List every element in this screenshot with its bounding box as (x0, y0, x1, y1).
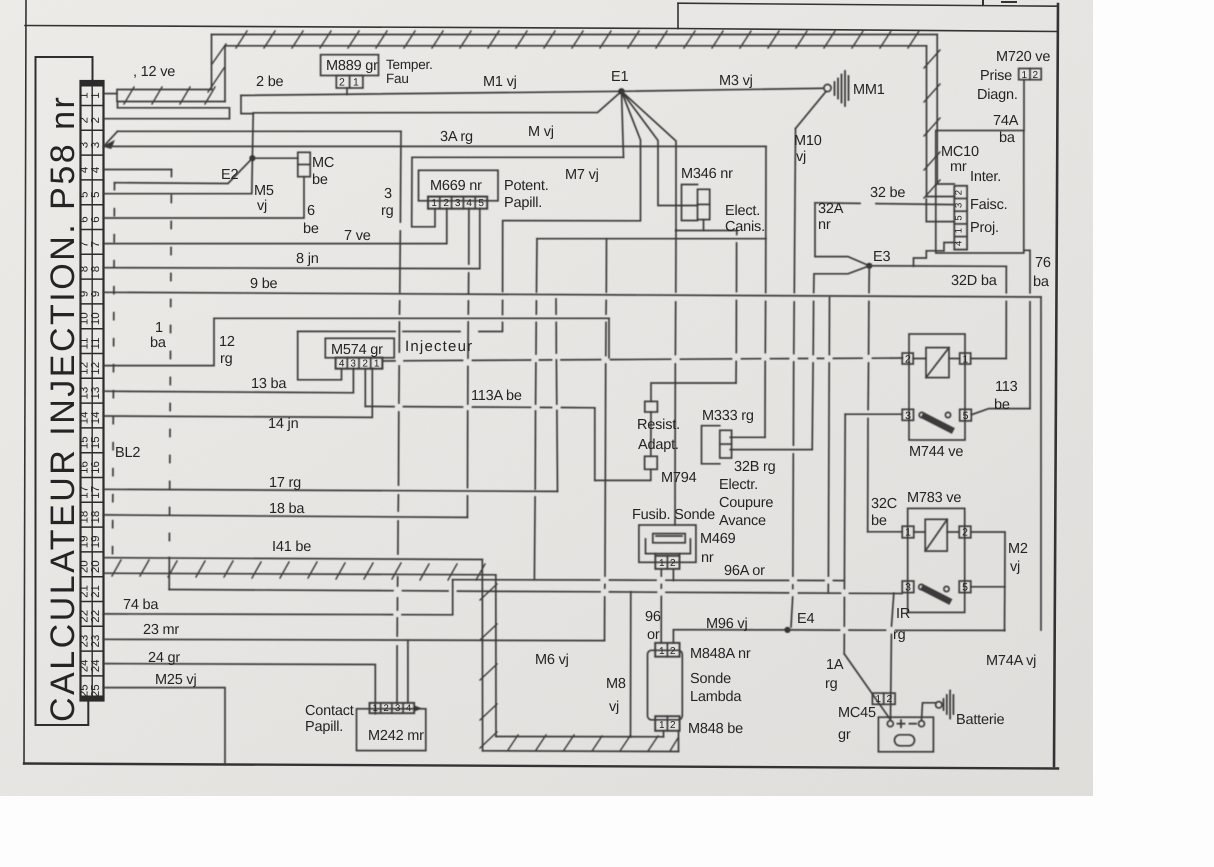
wire 12 rg drop to injector line (608, 318, 610, 358)
svg-text:rg: rg (893, 627, 906, 643)
svg-text:23: 23 (90, 635, 102, 648)
svg-text:6: 6 (79, 216, 91, 222)
shield dashed vertical x=114 (BL2) (113, 183, 115, 558)
svg-text:Papill.: Papill. (504, 195, 542, 211)
svg-text:17 rg: 17 rg (269, 475, 301, 491)
wire M3 vj to MM1 (622, 88, 824, 91)
wire 17 rg (104, 489, 558, 491)
svg-text:1: 1 (431, 198, 437, 209)
svg-text:M848A nr: M848A nr (690, 646, 751, 662)
svg-text:1: 1 (962, 354, 968, 366)
wire canister vertical x=737 (736, 231, 737, 384)
svg-text:113: 113 (995, 379, 1018, 395)
pin strip (81, 81, 104, 701)
svg-text:18: 18 (79, 511, 91, 524)
svg-text:Injecteur: Injecteur (405, 338, 473, 355)
svg-text:8: 8 (90, 266, 102, 272)
M vj bus y=238.7 (537, 238, 766, 240)
svg-text:5: 5 (90, 191, 102, 197)
wire M1 vj left tail staircase (241, 95, 253, 113)
wire M vj : E2 riser (251, 114, 254, 159)
svg-text:ba: ba (150, 335, 167, 351)
harness band 12 ve (pin1) horizontal channel (117, 90, 225, 102)
svg-text:20: 20 (79, 560, 91, 573)
wire 1A rg diagonal to MC45 (844, 654, 890, 720)
wire M7 vj loop to M669 pin1 (412, 157, 624, 227)
svg-text:4: 4 (406, 703, 411, 714)
wire 24 gr (104, 664, 376, 714)
M669 connector 1-5 (428, 197, 487, 209)
svg-text:M vj: M vj (528, 124, 554, 140)
wire 32 be to MC10 cell2 (815, 203, 954, 205)
svg-text:2: 2 (962, 527, 968, 539)
svg-text:3: 3 (79, 142, 91, 148)
svg-text:CALCULATEUR INJECTION. P58 nr: CALCULATEUR INJECTION. P58 nr (44, 95, 82, 722)
svg-text:4: 4 (466, 198, 472, 209)
svg-text:rg: rg (825, 676, 838, 692)
fuse link to connector (655, 554, 679, 556)
svg-text:IR: IR (896, 606, 910, 622)
wire 74 ba (104, 580, 453, 615)
svg-text:14 jn: 14 jn (268, 416, 299, 432)
calculateur title box (36, 57, 93, 725)
svg-text:MM1: MM1 (853, 82, 885, 98)
svg-text:or: or (647, 627, 660, 643)
battery plus terminal (887, 721, 893, 727)
svg-text:M8: M8 (606, 676, 626, 692)
wire 14 jn (104, 369, 373, 418)
svg-text:8 jn: 8 jn (296, 251, 319, 267)
component Inter Faisc Proj box (936, 131, 1024, 254)
shield dashed vertical x=171 (1 ba) (169, 170, 171, 558)
svg-text:2: 2 (339, 77, 345, 89)
wire 3A rg long horizontal (104, 145, 767, 147)
M346 connector (698, 189, 710, 219)
wire 32C be from E3 down to M783 pin1 (868, 266, 870, 532)
svg-text:rg: rg (220, 351, 233, 367)
label M242 cells (372, 703, 411, 714)
svg-text:Inter.: Inter. (970, 169, 1001, 185)
battery slot (895, 735, 915, 746)
wire 3 rg horizontal (pin3 upper) (118, 130, 402, 132)
wire M242 pin4 riser to M6 line (407, 641, 409, 703)
band 141 end upturn at M848 (664, 732, 679, 752)
svg-text:4: 4 (79, 166, 91, 173)
svg-text:2: 2 (670, 646, 676, 657)
wire 9 be long line (104, 292, 1042, 297)
svg-text:1: 1 (155, 320, 163, 336)
wire injecteur line M574 to relay pin2 (382, 358, 902, 361)
svg-text:Elect.: Elect. (725, 203, 760, 219)
svg-text:22: 22 (90, 610, 102, 623)
component M574 box (325, 338, 394, 358)
svg-text:22: 22 (79, 610, 91, 623)
wire M783 pin5 (971, 586, 1005, 588)
svg-text:MC10: MC10 (941, 144, 979, 160)
band 141 bottom leg (483, 737, 679, 752)
wire M10 vj vertical to E4 (791, 129, 796, 628)
E1 vertical to M7 (622, 91, 624, 157)
svg-text:Fusib. Sonde: Fusib. Sonde (632, 507, 715, 523)
svg-text:19: 19 (79, 536, 91, 549)
svg-text:M1 vj: M1 vj (483, 74, 517, 90)
svg-text:M10: M10 (794, 133, 822, 149)
M783 coil leads (914, 531, 959, 533)
svg-text:Avance: Avance (719, 513, 766, 529)
svg-text:14: 14 (79, 411, 91, 424)
hatch ticks 141 descent (480, 584, 497, 748)
svg-text:12: 12 (79, 362, 91, 375)
svg-text:M720 ve: M720 ve (996, 49, 1050, 65)
M242 arrow nub (414, 706, 421, 711)
frame left edge (24, 0, 26, 764)
E1 fan diagonal 2 to M346 feed (622, 91, 698, 205)
svg-text:rg: rg (381, 203, 394, 219)
svg-text:E2: E2 (221, 167, 238, 183)
svg-text:be: be (312, 172, 328, 188)
M783 switch circles (919, 584, 924, 589)
svg-text:7: 7 (79, 241, 91, 247)
harness band top channel (212, 35, 938, 46)
svg-text:3: 3 (90, 142, 102, 148)
svg-text:2: 2 (90, 117, 102, 123)
component Prise Diagn connector (1019, 69, 1041, 80)
E1 fan diagonal 1 + vertical to M346 upper (298, 91, 641, 331)
svg-text:2: 2 (362, 359, 368, 370)
svg-text:M7 vj: M7 vj (565, 167, 599, 183)
M574 pin4 wire to 17rg (298, 331, 342, 379)
wire 96 or vertical M469 cell1 to M848A (660, 569, 662, 643)
wire M96 vj from M848A cell2 to E4 (673, 630, 787, 643)
M744 pin5 square (960, 409, 972, 421)
svg-text:E3: E3 (873, 249, 890, 265)
component M669 box (419, 170, 499, 201)
frame right edge (1054, 4, 1058, 766)
M783 coil (925, 519, 947, 551)
svg-text:21: 21 (90, 585, 102, 598)
wire 113A be riser x=595 (594, 408, 596, 481)
title block top-right: top edge (678, 3, 1058, 6)
harness band entry into MC10 connector (927, 184, 955, 197)
wire 9be/76ba vertical x=1041 (1040, 297, 1042, 630)
svg-text:1: 1 (353, 77, 359, 89)
battery riser vertical x=845 (844, 414, 845, 654)
wire 7 ve (104, 209, 447, 244)
svg-text:16: 16 (79, 461, 91, 474)
svg-text:ba: ba (999, 130, 1016, 146)
svg-text:19: 19 (90, 536, 102, 549)
svg-text:3: 3 (905, 582, 911, 594)
M783 pin5 square (959, 581, 971, 593)
svg-text:13 ba: 13 ba (251, 376, 287, 392)
wire E2 to MC (252, 157, 297, 159)
svg-text:mr: mr (950, 159, 967, 175)
harness band riser channel x=211-225 (212, 35, 226, 102)
frame bottom line (24, 764, 1058, 769)
E1 fan diagonal 3 (622, 91, 677, 230)
svg-text:76: 76 (1035, 255, 1051, 271)
svg-text:10: 10 (90, 312, 102, 325)
svg-text:Proj.: Proj. (970, 220, 999, 236)
band 141 right descent (482, 560, 496, 751)
component relay M744 box (909, 334, 965, 440)
svg-text:4: 4 (954, 241, 965, 246)
svg-text:1: 1 (372, 703, 377, 714)
svg-text:Temper.: Temper. (386, 57, 433, 72)
battery plus sign (898, 720, 905, 727)
svg-text:2: 2 (670, 558, 676, 569)
svg-text:2: 2 (670, 720, 676, 731)
svg-text:13: 13 (90, 387, 102, 400)
E1 junction dot (618, 88, 624, 94)
svg-text:32 be: 32 be (870, 185, 905, 201)
svg-text:5: 5 (478, 198, 484, 209)
arrowhead pin3 (104, 141, 115, 149)
svg-text:1: 1 (876, 694, 882, 705)
E3 junction dot (866, 263, 872, 269)
wire M2 vj continue to E4 line (1004, 587, 1006, 631)
hatch ticks top band (236, 31, 919, 48)
svg-text:M3 vj: M3 vj (719, 73, 753, 89)
harness band 141 be (pin20) horizontal (104, 558, 496, 575)
long line pin4-shield to M783 pin3 (169, 590, 902, 594)
battery minus terminal (919, 721, 925, 727)
label M669 cells (431, 198, 484, 209)
svg-text:Coupure: Coupure (719, 495, 773, 511)
hatch ticks right descent (924, 50, 940, 198)
wire 96A or horizontal (453, 579, 844, 582)
svg-text:Contact: Contact (305, 703, 354, 719)
connector M848A 1|2 (655, 643, 679, 657)
wire 32A nr from E3 down to M333 (812, 266, 869, 450)
wire pin1 stub to band (104, 93, 118, 95)
svg-text:2: 2 (79, 117, 91, 123)
wire 113A be dashed horizontal (365, 406, 595, 407)
component Sonde Lambda body (648, 650, 683, 720)
svg-text:11: 11 (90, 338, 102, 350)
label M783 pins (905, 527, 968, 594)
svg-text:1: 1 (90, 92, 102, 98)
svg-text:7 ve: 7 ve (344, 228, 371, 244)
svg-text:E1: E1 (611, 69, 628, 85)
svg-text:M346 nr: M346 nr (681, 166, 733, 182)
label MC10 cells (954, 190, 965, 246)
wire 113 be to M744 pin5 (971, 409, 1030, 415)
M889 drop wire (346, 88, 348, 94)
svg-text:be: be (303, 221, 319, 237)
svg-text:15: 15 (79, 436, 91, 449)
M783 pin2 square (959, 526, 971, 538)
svg-text:5: 5 (954, 216, 965, 221)
svg-text:15: 15 (90, 436, 102, 449)
svg-text:12: 12 (90, 362, 102, 375)
wire 2 be : pin2 U-turn into band (104, 103, 230, 119)
svg-text:23 mr: 23 mr (143, 622, 179, 638)
svg-text:Fau: Fau (386, 71, 409, 86)
svg-text:32C: 32C (871, 496, 897, 512)
M744 switch blade (925, 417, 951, 430)
svg-text:M744 ve: M744 ve (909, 444, 963, 460)
wire to Resist Adapt (651, 383, 736, 401)
svg-text:24 gr: 24 gr (148, 650, 180, 666)
svg-text:3: 3 (395, 703, 400, 714)
svg-text:vj: vj (796, 149, 806, 165)
wire MC10 cell3 feed (926, 199, 954, 222)
label M744 pins (905, 354, 969, 422)
svg-text:M5: M5 (254, 183, 274, 199)
svg-text:32A: 32A (818, 201, 844, 217)
M744 pin2 square (902, 353, 913, 364)
svg-text:M25 vj: M25 vj (155, 672, 197, 688)
svg-text:11: 11 (79, 338, 91, 350)
wire E2 diagonal to shield bus (115, 158, 253, 183)
wire 12 rg (104, 318, 610, 365)
svg-text:96: 96 (645, 609, 661, 625)
component Fusib Sonde box (639, 525, 696, 562)
connector M242 1|2|3|4 (370, 703, 415, 713)
M346 lower stub (703, 220, 705, 231)
svg-text:32B rg: 32B rg (734, 459, 776, 475)
wire M744 pin3 feed from battery riser (845, 413, 902, 415)
svg-text:vj: vj (1010, 559, 1020, 575)
svg-text:M96 vj: M96 vj (706, 616, 748, 632)
wire 13 ba (104, 369, 354, 393)
pin numbers (79, 92, 103, 697)
svg-text:I41 be: I41 be (272, 539, 311, 555)
svg-text:gr: gr (838, 727, 851, 743)
svg-text:1: 1 (79, 92, 91, 98)
ground symbol batterie (936, 691, 954, 719)
svg-text:5: 5 (962, 582, 968, 594)
svg-text:20: 20 (90, 560, 102, 573)
svg-text:E4: E4 (797, 611, 814, 627)
hatch ticks 141 band (112, 560, 485, 580)
wire 3A rg into M333 pin1 (730, 436, 765, 438)
wire canister line y=230.5 (676, 230, 737, 232)
svg-text:Electr.: Electr. (719, 477, 758, 493)
connector MC10 strip (954, 186, 967, 250)
svg-text:2: 2 (954, 190, 965, 195)
wire M vj horizontal to E1 (253, 91, 621, 113)
wire 76 ba from Inter box to 9be line (1024, 250, 1030, 408)
svg-text:1A: 1A (826, 657, 844, 673)
component Batterie box (878, 717, 933, 752)
svg-text:1: 1 (374, 359, 380, 370)
svg-text:2 be: 2 be (256, 74, 284, 90)
svg-text:24: 24 (79, 659, 91, 672)
wire M783 pin1 (868, 531, 903, 533)
svg-text:Sonde: Sonde (690, 671, 731, 687)
component Resist Adapt square1 (645, 401, 658, 412)
hatch ticks 12ve band (124, 87, 215, 104)
component M242 box (357, 709, 426, 751)
wire pin5 M5 vj (104, 158, 253, 194)
svg-text:Canis.: Canis. (725, 219, 765, 235)
title block left edge (677, 3, 679, 28)
cut-off text marks in title block (983, 0, 1016, 5)
wire 6 be : MC to pin6 (104, 177, 305, 218)
svg-text:7: 7 (90, 241, 102, 247)
wire IR rg M783 pin3 down to battery plus (891, 594, 894, 720)
svg-text:21: 21 (79, 585, 91, 598)
svg-text:74A: 74A (993, 113, 1019, 129)
M744 coil (926, 348, 949, 378)
svg-text:M333 rg: M333 rg (702, 408, 754, 424)
svg-text:14: 14 (90, 411, 102, 424)
battery ground wire (922, 703, 936, 721)
wire 17 rg riser x=557 (556, 299, 558, 491)
shield dashed continuation to long line (168, 558, 170, 590)
wire M744 pin1 to 32D (971, 358, 1007, 360)
wire 3A rg vertical x=766 (765, 146, 766, 437)
svg-text:M2: M2 (1008, 541, 1028, 557)
svg-text:17: 17 (79, 486, 91, 499)
wire 32D ba from E3 (869, 265, 1006, 268)
M744 coil leads (913, 358, 960, 360)
svg-text:9 be: 9 be (250, 276, 278, 292)
svg-text:3: 3 (455, 198, 461, 209)
svg-text:2: 2 (887, 694, 893, 705)
harness band right descent channel (927, 35, 938, 197)
wire 18 ba (104, 515, 468, 518)
svg-text:MC: MC (312, 155, 334, 171)
M744 pin1 square (960, 353, 971, 364)
component relay M783 box (908, 508, 965, 612)
svg-text:vj: vj (257, 198, 267, 214)
wire E4 line to M783 (788, 629, 1005, 632)
battery minus sign (910, 723, 917, 725)
svg-text:MC45: MC45 (838, 705, 876, 721)
svg-text:4: 4 (90, 166, 102, 173)
fuse element (653, 534, 685, 543)
wire 32D vertical to M744 pin1 (1005, 266, 1007, 358)
wire M794 down-left (595, 469, 651, 480)
unresolved vertical x=829 (828, 297, 829, 592)
svg-text:16: 16 (90, 461, 102, 474)
wire M25 vj (104, 688, 226, 765)
component M889 box (321, 55, 379, 76)
svg-text:Resist.: Resist. (637, 417, 680, 433)
wire 32B rg to M333 pin2 (730, 449, 812, 451)
title block bottom edge (678, 29, 1058, 32)
svg-text:96A or: 96A or (724, 563, 765, 579)
svg-text:Adapt.: Adapt. (638, 437, 679, 453)
component M333 bracket (702, 426, 720, 464)
svg-text:74 ba: 74 ba (123, 597, 159, 613)
label M574 cells (339, 359, 380, 370)
M783 pin3 square (902, 581, 914, 593)
connector M848 1|2 (655, 716, 679, 731)
svg-text:M574 gr: M574 gr (331, 342, 383, 358)
svg-text:M469: M469 (700, 531, 736, 547)
M574 pin2 drop (364, 369, 366, 407)
wire fuse feed vertical x=675 (675, 231, 676, 526)
wire 96A drop from M469 cell2 (672, 569, 674, 580)
wire 74A ba down to Inter box (1023, 80, 1025, 131)
svg-text:3A rg: 3A rg (440, 129, 473, 145)
svg-text:1: 1 (659, 558, 665, 569)
hatch ticks riser corner (208, 44, 226, 92)
svg-text:Lambda: Lambda (690, 689, 742, 705)
wire 3 rg long vertical to M242 pin3 (397, 131, 401, 703)
hatch ticks 141 bottom leg (508, 735, 678, 751)
svg-text:M848 be: M848 be (688, 721, 743, 737)
svg-text:BL2: BL2 (115, 445, 140, 461)
svg-text:1: 1 (1022, 70, 1028, 81)
svg-text:2: 2 (383, 703, 388, 714)
M783 pin1 square (902, 526, 914, 538)
svg-text:be: be (994, 397, 1010, 413)
